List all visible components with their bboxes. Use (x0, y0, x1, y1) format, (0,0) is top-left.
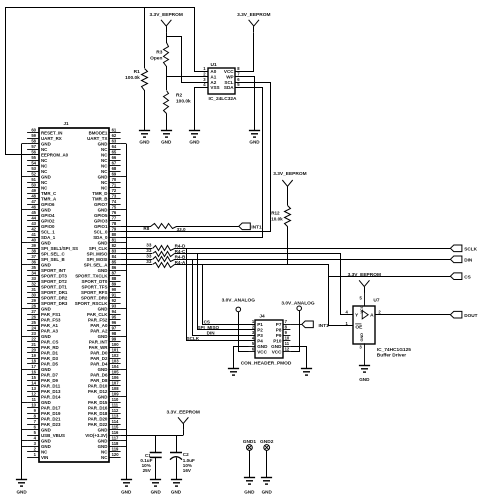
svg-text:NC: NC (41, 180, 48, 185)
svg-text:23: 23 (31, 331, 36, 336)
svg-text:34: 34 (31, 271, 36, 276)
svg-text:USB_VBUS: USB_VBUS (41, 433, 65, 438)
wire SDA_0 (U1 SDA to J1 pin 80) (121, 88, 263, 238)
svg-text:41: 41 (31, 232, 36, 237)
svg-text:PAR_D20: PAR_D20 (88, 417, 108, 422)
svg-text:79: 79 (112, 227, 117, 232)
svg-text:UART_TX: UART_TX (87, 136, 107, 141)
power 3.3V_EEPROM (U7 VCC) (348, 272, 381, 293)
svg-text:68: 68 (112, 166, 117, 171)
svg-text:SPORT_INT: SPORT_INT (41, 268, 66, 273)
svg-text:GPIO0: GPIO0 (41, 224, 55, 229)
wire J4 pin 5 to ground (234, 347, 249, 369)
svg-text:56: 56 (31, 150, 36, 155)
svg-text:PAR_A2: PAR_A2 (90, 329, 108, 334)
svg-text:21: 21 (31, 342, 36, 347)
svg-text:GND: GND (41, 142, 51, 147)
svg-text:R12: R12 (271, 211, 280, 216)
svg-text:GND: GND (98, 334, 108, 339)
svg-text:C2: C2 (183, 452, 189, 457)
svg-text:65: 65 (112, 150, 117, 155)
svg-text:GND: GND (98, 439, 108, 444)
svg-text:INT1: INT1 (319, 323, 330, 328)
svg-text:3.3V_EEPROM: 3.3V_EEPROM (348, 272, 381, 278)
svg-text:101: 101 (112, 348, 120, 353)
svg-text:NC: NC (101, 169, 108, 174)
svg-text:PAR_RD: PAR_RD (41, 345, 59, 350)
svg-text:P4: P4 (257, 339, 263, 344)
svg-text:PAR_D0: PAR_D0 (90, 351, 108, 356)
svg-text:PAR_FS3: PAR_FS3 (41, 318, 61, 323)
svg-text:96: 96 (112, 320, 117, 325)
svg-text:GPIO3: GPIO3 (94, 219, 108, 224)
wire EEPROM_A0 (J1 pin 56 to U1 A0) (6, 8, 209, 155)
node INT1 flag (J4 P7) (290, 321, 329, 328)
svg-text:99: 99 (112, 337, 117, 342)
svg-text:PAR_D23: PAR_D23 (41, 422, 61, 427)
svg-text:GND: GND (41, 334, 51, 339)
svg-text:12: 12 (31, 392, 36, 397)
wire SCL_0 (U1 SCL to J1 pin 79) (121, 83, 271, 232)
svg-text:98: 98 (112, 331, 117, 336)
svg-text:NC: NC (101, 180, 108, 185)
node DIN port flag (450, 256, 472, 263)
svg-text:GND: GND (41, 367, 51, 372)
svg-text:48: 48 (31, 194, 36, 199)
svg-text:P1: P1 (257, 322, 263, 327)
ground GND (right bus) (121, 480, 132, 495)
svg-text:U1: U1 (211, 62, 217, 68)
svg-text:PAR_D1: PAR_D1 (41, 351, 59, 356)
wire U1 WP to ground (236, 77, 255, 131)
svg-text:57: 57 (31, 144, 36, 149)
wire SPI_MISO net (175, 254, 354, 330)
svg-text:DOUT: DOUT (464, 313, 477, 318)
svg-text:104: 104 (112, 364, 120, 369)
svg-text:GND: GND (41, 439, 51, 444)
svg-text:77: 77 (112, 216, 117, 221)
svg-text:PAR_D19: PAR_D19 (41, 411, 61, 416)
svg-text:61: 61 (112, 128, 117, 133)
svg-text:OE: OE (355, 325, 363, 331)
svg-text:A2: A2 (210, 80, 216, 85)
svg-text:82: 82 (112, 243, 117, 248)
power 3.3V_EEPROM (R3 pull-up) (150, 12, 183, 43)
svg-text:100.0k: 100.0k (125, 75, 140, 81)
svg-text:TMR_A: TMR_A (41, 197, 57, 202)
svg-text:GND: GND (262, 489, 273, 494)
wire DIN net (174, 260, 450, 336)
svg-text:GND: GND (98, 444, 108, 449)
svg-text:A: A (370, 313, 374, 319)
wire DOUT net (U7 pin 2 to port) (375, 314, 450, 316)
svg-text:66: 66 (112, 155, 117, 160)
svg-text:SPORT_RSCLK: SPORT_RSCLK (75, 301, 109, 306)
resistor R2 (164, 91, 192, 131)
wire left GND bus (22, 144, 28, 480)
svg-text:PAR_D9: PAR_D9 (41, 378, 59, 383)
svg-text:85: 85 (112, 260, 117, 265)
svg-text:75: 75 (112, 205, 117, 210)
svg-text:97: 97 (112, 326, 117, 331)
svg-text:GND: GND (41, 175, 51, 180)
svg-text:DIN: DIN (207, 330, 216, 335)
svg-text:PAR_D18: PAR_D18 (88, 411, 108, 416)
svg-text:PAR_D2: PAR_D2 (90, 356, 108, 361)
svg-text:NC: NC (101, 147, 108, 152)
svg-text:SPORT_DT0: SPORT_DT0 (82, 279, 108, 284)
svg-text:28: 28 (31, 304, 36, 309)
svg-text:SCL_1: SCL_1 (41, 230, 55, 235)
svg-text:SPORT_DT3: SPORT_DT3 (41, 274, 67, 279)
svg-text:105: 105 (112, 370, 120, 375)
svg-text:92: 92 (112, 298, 117, 303)
svg-text:PAR_A3: PAR_A3 (41, 329, 59, 334)
svg-text:SPI_MOSI: SPI_MOSI (87, 257, 108, 262)
svg-text:TMR_C: TMR_C (41, 191, 57, 196)
svg-text:PAR_INT: PAR_INT (89, 340, 108, 345)
ground GND (U1 VSS) (189, 131, 200, 145)
svg-text:62: 62 (112, 133, 117, 138)
svg-text:A0: A0 (210, 69, 216, 74)
svg-text:R3: R3 (156, 50, 162, 56)
svg-text:3.3V_EEPROM: 3.3V_EEPROM (167, 409, 200, 415)
svg-text:42: 42 (31, 227, 36, 232)
node CS port flag (450, 273, 470, 280)
svg-text:SDA: SDA (224, 85, 234, 90)
svg-text:81: 81 (112, 238, 117, 243)
svg-text:SPI_SEL1/SPI_SS: SPI_SEL1/SPI_SS (41, 246, 78, 251)
svg-text:GND: GND (244, 489, 255, 494)
svg-text:17: 17 (31, 364, 36, 369)
svg-text:10: 10 (285, 336, 290, 341)
svg-text:P9: P9 (276, 333, 282, 338)
svg-text:P8: P8 (276, 328, 282, 333)
svg-text:25: 25 (31, 320, 36, 325)
svg-text:87: 87 (112, 271, 117, 276)
wire J4 pin 11 to ground (291, 347, 307, 369)
power 3.3V_EEPROM (R12) (273, 171, 306, 205)
svg-text:NC: NC (41, 186, 48, 191)
svg-text:14: 14 (31, 381, 36, 386)
ground GND (J4 pin 5) (228, 369, 239, 376)
svg-text:3.0V_ANALOG: 3.0V_ANALOG (222, 297, 256, 303)
capacitor C1 (0.1uF) (140, 435, 161, 479)
power 3.0V_ANALOG (J4 pin 12) (281, 301, 315, 352)
svg-text:GND: GND (41, 428, 51, 433)
node SCLK port flag (450, 245, 477, 252)
resistor R8 (33.0) (121, 224, 239, 232)
svg-text:CON_HEADER_PMOD: CON_HEADER_PMOD (241, 360, 292, 366)
connector J4 (CON_HEADER_PMOD) (241, 313, 292, 366)
svg-text:33: 33 (146, 259, 152, 264)
svg-text:SDA_1: SDA_1 (41, 235, 56, 240)
svg-text:NC: NC (41, 164, 48, 169)
svg-text:3.3V_EEPROM: 3.3V_EEPROM (273, 171, 306, 177)
svg-text:GND: GND (257, 344, 268, 349)
svg-text:GPIO2: GPIO2 (41, 219, 55, 224)
svg-text:SPI_SEL_B: SPI_SEL_B (41, 257, 65, 262)
svg-text:33.0: 33.0 (177, 227, 186, 232)
svg-text:SDA_0: SDA_0 (93, 235, 108, 240)
svg-text:109: 109 (112, 392, 120, 397)
svg-text:119: 119 (112, 447, 119, 452)
svg-text:93: 93 (112, 304, 117, 309)
svg-text:CS: CS (204, 319, 210, 324)
svg-text:116: 116 (112, 430, 119, 435)
svg-text:GND: GND (41, 208, 51, 213)
svg-text:78: 78 (112, 221, 117, 226)
svg-text:36: 36 (31, 260, 36, 265)
svg-text:33: 33 (146, 248, 152, 253)
svg-text:NC: NC (101, 186, 108, 191)
svg-text:PAR_D12: PAR_D12 (88, 389, 108, 394)
svg-text:3.3V_EEPROM: 3.3V_EEPROM (237, 12, 270, 18)
svg-text:3.0V_ANALOG: 3.0V_ANALOG (281, 301, 315, 307)
svg-text:INT1: INT1 (251, 225, 262, 230)
svg-text:PAR_D16: PAR_D16 (88, 406, 108, 411)
node DOUT port flag (450, 311, 477, 318)
svg-text:UART_RX: UART_RX (41, 136, 62, 141)
svg-text:103: 103 (112, 359, 120, 364)
svg-text:PAR_D11: PAR_D11 (41, 384, 61, 389)
svg-text:P3: P3 (257, 333, 263, 338)
capacitor C2 (1.0uF polarized) (170, 435, 195, 479)
svg-text:GND: GND (41, 307, 51, 312)
svg-text:P7: P7 (276, 322, 282, 327)
svg-text:PAR_D4: PAR_D4 (90, 362, 108, 367)
svg-text:24: 24 (31, 326, 36, 331)
svg-text:SPI_CLK: SPI_CLK (89, 246, 108, 251)
svg-text:PAR_D3: PAR_D3 (41, 356, 59, 361)
svg-text:DIN: DIN (464, 258, 473, 263)
connector J1 (27, 121, 121, 462)
svg-text:EEPROM_A0: EEPROM_A0 (41, 153, 69, 158)
power 3.3V_EEPROM (U1 VCC) (237, 12, 270, 33)
svg-text:VSS: VSS (210, 85, 219, 90)
svg-text:51: 51 (31, 177, 36, 182)
svg-text:113: 113 (112, 414, 119, 419)
svg-text:SPORT_DR0: SPORT_DR0 (81, 296, 108, 301)
svg-text:PAR_A1: PAR_A1 (41, 323, 59, 328)
svg-text:GND: GND (98, 175, 108, 180)
svg-text:GND: GND (41, 444, 51, 449)
svg-text:GPIO5: GPIO5 (94, 213, 108, 218)
power 3.0V_ANALOG (J4 pin 6) (222, 297, 256, 351)
svg-text:R8: R8 (143, 226, 149, 231)
svg-text:88: 88 (112, 276, 117, 281)
svg-text:GND: GND (359, 377, 370, 382)
svg-text:R4-B: R4-B (175, 255, 186, 260)
wire VIO(+3.3V) net (121, 435, 184, 437)
svg-text:84: 84 (112, 254, 117, 259)
svg-text:PAR_D17: PAR_D17 (41, 406, 61, 411)
svg-text:107: 107 (112, 381, 120, 386)
svg-text:GND: GND (98, 208, 108, 213)
svg-text:GPIO7: GPIO7 (94, 202, 108, 207)
svg-text:44: 44 (31, 216, 36, 221)
ground GND (left bus) (16, 480, 27, 495)
svg-text:106: 106 (112, 375, 120, 380)
svg-text:43: 43 (31, 221, 36, 226)
svg-text:U7: U7 (373, 298, 379, 304)
resistor R4-A (33) (121, 259, 186, 268)
svg-text:120: 120 (112, 452, 120, 457)
svg-text:BMODE1: BMODE1 (89, 131, 108, 136)
svg-text:SCL_0: SCL_0 (94, 230, 108, 235)
svg-text:R2: R2 (176, 93, 182, 99)
svg-text:SCLK: SCLK (187, 336, 200, 341)
svg-text:TMR_D: TMR_D (92, 191, 107, 196)
ground GND (GND2) (261, 478, 273, 495)
svg-text:NC: NC (41, 169, 48, 174)
ground GND (U1 WP) (249, 131, 260, 145)
svg-text:33: 33 (146, 242, 152, 247)
svg-text:108: 108 (112, 386, 120, 391)
ground GND (C2) (171, 480, 182, 495)
svg-text:GND: GND (41, 400, 51, 405)
svg-text:35: 35 (31, 265, 36, 270)
svg-text:SPI_MISO: SPI_MISO (197, 325, 219, 330)
svg-text:SPORT_TFS: SPORT_TFS (82, 285, 108, 290)
svg-text:SPORT_DT1: SPORT_DT1 (41, 285, 67, 290)
IC U7 (IC_74HC1G125 buffer driver) (346, 291, 412, 366)
svg-text:NC: NC (101, 450, 108, 455)
svg-text:32: 32 (31, 282, 36, 287)
svg-text:15: 15 (31, 375, 36, 380)
svg-text:73: 73 (112, 194, 117, 199)
svg-text:22: 22 (31, 337, 36, 342)
svg-text:GND: GND (98, 142, 108, 147)
svg-text:115: 115 (112, 425, 119, 430)
ground GND (U7) (359, 366, 370, 382)
svg-text:45: 45 (31, 210, 36, 215)
svg-text:GPIO1: GPIO1 (94, 224, 108, 229)
svg-text:SPORT_RFS: SPORT_RFS (81, 290, 107, 295)
svg-text:10.0k: 10.0k (271, 217, 283, 222)
svg-text:70: 70 (112, 177, 117, 182)
svg-text:114: 114 (112, 419, 119, 424)
svg-text:110: 110 (112, 397, 119, 402)
svg-text:76: 76 (112, 210, 117, 215)
ground GND (J4 pin 11) (301, 369, 312, 376)
svg-text:PAR_D21: PAR_D21 (41, 417, 61, 422)
svg-text:PAR_D14: PAR_D14 (41, 395, 61, 400)
svg-text:R1: R1 (134, 69, 140, 75)
svg-text:52: 52 (31, 172, 36, 177)
svg-text:58: 58 (31, 139, 36, 144)
wire A2 net (3.3V branch to U1) (167, 37, 209, 83)
wire CS net (175, 265, 451, 326)
svg-text:PAR_D10: PAR_D10 (88, 384, 108, 389)
svg-text:GND: GND (98, 268, 108, 273)
svg-text:83: 83 (112, 249, 117, 254)
svg-text:SPORT_DR1: SPORT_DR1 (41, 290, 68, 295)
svg-text:SPORT_DT2: SPORT_DT2 (41, 279, 67, 284)
svg-text:VCC: VCC (257, 350, 267, 355)
resistor R12 (10.0k) (271, 206, 290, 265)
svg-text:PAR_WR: PAR_WR (89, 345, 109, 350)
svg-text:SPI_SEL_C: SPI_SEL_C (41, 252, 65, 257)
svg-text:SPORT_DR3: SPORT_DR3 (41, 301, 68, 306)
svg-text:112: 112 (112, 408, 119, 413)
svg-text:26: 26 (31, 315, 36, 320)
svg-text:39: 39 (31, 243, 36, 248)
svg-text:37: 37 (31, 254, 36, 259)
svg-text:38: 38 (31, 249, 36, 254)
svg-text:33: 33 (146, 253, 152, 258)
svg-text:GND: GND (249, 140, 260, 145)
svg-text:3.3V_EEPROM: 3.3V_EEPROM (150, 12, 183, 18)
svg-text:118: 118 (112, 441, 119, 446)
svg-text:16: 16 (31, 370, 36, 375)
svg-text:60: 60 (31, 128, 36, 133)
svg-text:27: 27 (31, 309, 36, 314)
svg-text:74: 74 (112, 199, 117, 204)
svg-text:NC: NC (101, 455, 108, 460)
svg-text:30: 30 (31, 293, 36, 298)
svg-text:11: 11 (32, 397, 37, 402)
svg-text:16V: 16V (183, 468, 192, 473)
wire U1 VCC (236, 33, 254, 72)
wire U1 VSS to ground (195, 88, 209, 131)
svg-text:95: 95 (112, 315, 117, 320)
svg-text:13: 13 (31, 386, 36, 391)
resistor R3 (150, 43, 168, 91)
svg-text:94: 94 (112, 309, 117, 314)
svg-text:91: 91 (112, 293, 117, 298)
svg-text:P2: P2 (257, 328, 263, 333)
svg-text:A1: A1 (210, 74, 216, 79)
svg-text:18: 18 (31, 359, 36, 364)
svg-text:GND: GND (98, 428, 108, 433)
resistor R4-B (33) (121, 253, 186, 261)
svg-text:102: 102 (112, 353, 120, 358)
svg-text:WP: WP (226, 74, 233, 79)
svg-text:GND: GND (171, 490, 182, 495)
svg-text:GND: GND (98, 307, 108, 312)
svg-text:RESET_IN: RESET_IN (41, 131, 62, 136)
svg-text:VIO(+3.3V): VIO(+3.3V) (85, 433, 108, 438)
svg-text:GND: GND (41, 263, 51, 268)
svg-text:GND: GND (189, 140, 200, 145)
svg-text:19: 19 (31, 353, 36, 358)
svg-text:GND: GND (271, 344, 282, 349)
svg-text:PAR_D6: PAR_D6 (90, 373, 108, 378)
svg-text:GPIO6: GPIO6 (41, 202, 55, 207)
ground GND (R1) (139, 131, 150, 145)
svg-text:PAR_CLK: PAR_CLK (87, 312, 108, 317)
svg-text:PAR_D13: PAR_D13 (41, 389, 61, 394)
svg-text:SPORT_DR2: SPORT_DR2 (41, 296, 68, 301)
svg-text:PAR_D15: PAR_D15 (88, 400, 108, 405)
svg-text:IC_24LC32A: IC_24LC32A (209, 96, 238, 102)
svg-text:SPORT_TXCLK: SPORT_TXCLK (75, 274, 108, 279)
svg-text:TMR_B: TMR_B (92, 197, 107, 202)
svg-text:GND: GND (139, 140, 150, 145)
svg-text:NC: NC (41, 147, 48, 152)
resistor R4-D (33) (121, 242, 186, 250)
svg-text:71: 71 (112, 183, 117, 188)
svg-text:46: 46 (31, 205, 36, 210)
ground GND (R2) (161, 131, 172, 145)
svg-text:29: 29 (31, 298, 36, 303)
ground GND (C1) (150, 480, 162, 495)
svg-text:PAR_A0: PAR_A0 (90, 323, 108, 328)
svg-text:R4-D: R4-D (175, 244, 186, 249)
svg-text:67: 67 (112, 161, 117, 166)
svg-text:90: 90 (112, 287, 117, 292)
